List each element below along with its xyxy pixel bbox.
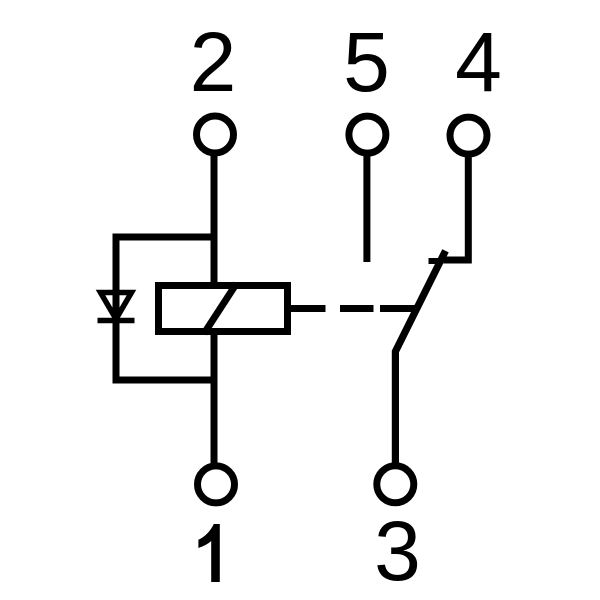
terminal circle pin 5	[349, 116, 386, 153]
mechanical link dash	[340, 305, 374, 312]
wire pin5 open contact	[363, 153, 370, 262]
terminal circle pin 3	[377, 466, 414, 503]
relay coil K1 slash	[204, 284, 237, 334]
svg-text:2: 2	[190, 15, 237, 109]
wire diode loop top	[113, 234, 218, 241]
svg-text:5: 5	[343, 15, 390, 109]
wire diode loop left	[113, 234, 120, 384]
mechanical link dash to armature	[380, 305, 415, 312]
svg-text:3: 3	[374, 504, 421, 598]
svg-text:4: 4	[455, 15, 502, 109]
wire coil to pin1	[211, 330, 218, 465]
switch armature and wire to pin 3	[395, 251, 445, 465]
diode D1 triangle	[101, 293, 132, 320]
relay coil K1 box	[159, 286, 288, 332]
wire coil right stub	[288, 305, 326, 312]
diode D1 cathode bar	[98, 318, 135, 324]
wire pin4 to fixed contact	[444, 154, 469, 260]
wire pin2 to coil	[211, 153, 218, 287]
terminal circle pin 4	[450, 117, 487, 154]
terminal circle pin 1	[198, 466, 235, 503]
wire diode loop bottom	[113, 377, 218, 384]
contact tick	[429, 258, 442, 264]
pin label 1	[198, 524, 219, 582]
terminal circle pin 2	[197, 116, 234, 153]
